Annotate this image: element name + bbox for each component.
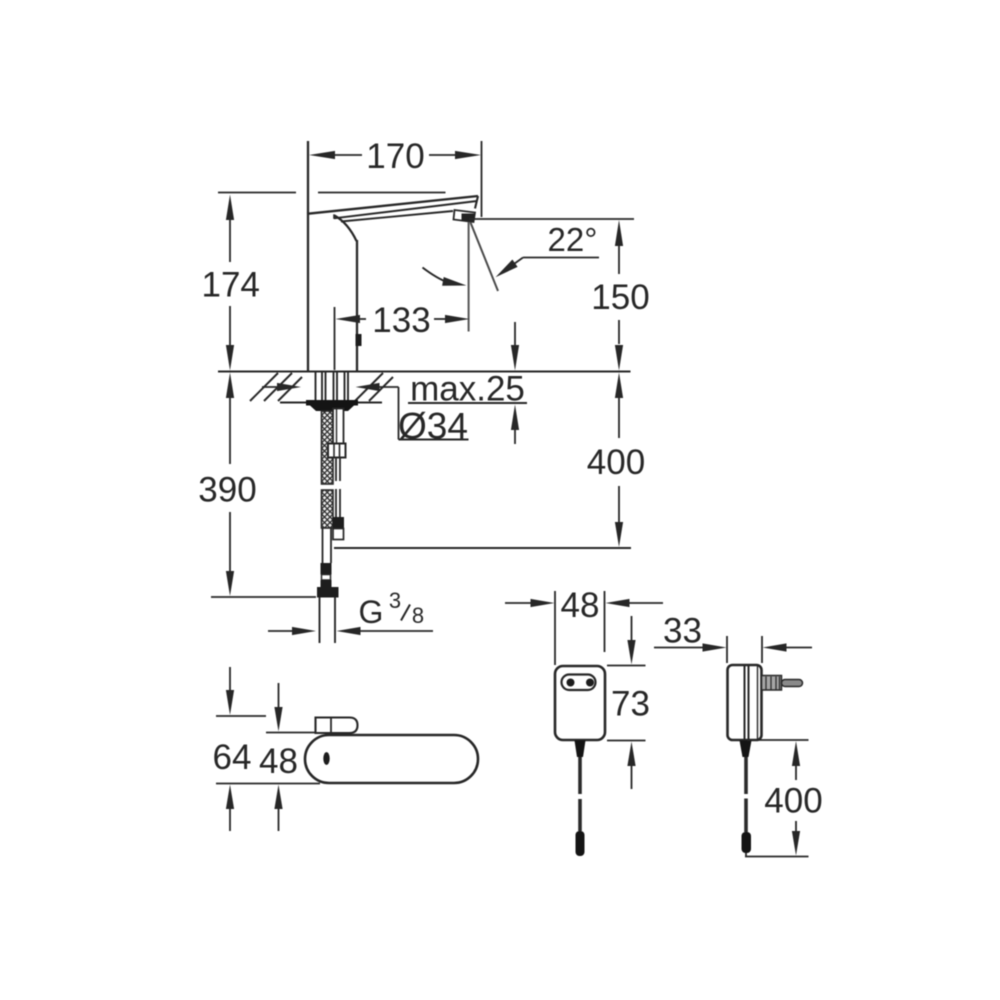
svg-text:48: 48: [561, 586, 600, 625]
svg-text:73: 73: [611, 685, 650, 724]
svg-text:Ø34: Ø34: [398, 406, 468, 447]
shank lines through counter: [316, 372, 349, 400]
plan view sensor slot: [323, 752, 329, 765]
water stream tilted 22 deg: [471, 223, 499, 292]
hose end fitting: [321, 563, 332, 575]
svg-text:48: 48: [259, 742, 298, 781]
dim 73: [607, 616, 646, 789]
svg-text:3: 3: [389, 588, 401, 613]
cable plug block: [333, 517, 345, 529]
svg-text:8: 8: [412, 603, 424, 628]
spout tip front face: [475, 196, 478, 209]
power supply body: [555, 666, 605, 740]
power supply cable stub: [575, 741, 586, 758]
socket pin holes: [567, 679, 575, 687]
spout outlet mousseur: [454, 210, 476, 222]
hose level reference line: [334, 547, 631, 549]
water stream vertical line: [468, 222, 470, 332]
mounting flange: [306, 400, 358, 406]
dim 170 horizontal: [333, 141, 482, 217]
sensor cable below nut: [335, 458, 337, 482]
counter bottom line: [280, 402, 382, 404]
G3/8 connection nut: [317, 587, 339, 598]
svg-text:150: 150: [591, 278, 649, 317]
plug pin base: [762, 676, 782, 691]
adapter seam lines: [744, 666, 746, 739]
dim 400 right: [745, 740, 809, 857]
spout chamfer line: [334, 201, 477, 218]
spout neck curve: [335, 216, 357, 242]
counter hatching left: [250, 373, 302, 401]
svg-text:22°: 22°: [548, 221, 598, 258]
svg-text:390: 390: [198, 471, 256, 510]
svg-text:133: 133: [372, 301, 430, 340]
dim 400 main: [618, 397, 620, 523]
dim 133: [335, 307, 447, 370]
dim G3/8 arrows: [268, 630, 292, 632]
spout underside line: [341, 211, 453, 222]
svg-text:G: G: [359, 594, 384, 630]
dim 33: [654, 636, 812, 663]
faucet back edge + 170 left extension: [307, 141, 309, 372]
plan view faucet body stadium: [305, 735, 478, 783]
svg-text:170: 170: [366, 137, 424, 176]
dim 48 plan: [266, 683, 316, 831]
svg-text:max.25: max.25: [410, 370, 525, 409]
adapter cable tip: [742, 832, 752, 853]
angle sweep arc arrow: [423, 268, 449, 283]
dim 174 vertical: [229, 218, 231, 346]
label 22 deg leader: [523, 257, 599, 259]
threaded rod upper: [333, 409, 344, 444]
adapter cable stub: [740, 741, 752, 758]
deck counter top line: [218, 371, 631, 373]
svg-text:400: 400: [764, 782, 822, 821]
svg-text:64: 64: [213, 738, 252, 777]
fraction slash G3/8: [401, 605, 410, 621]
plug pin: [782, 680, 803, 687]
svg-text:400: 400: [587, 443, 645, 482]
braided hose upper: [322, 411, 334, 528]
faucet top extension line: [218, 192, 296, 194]
max25 underline: [408, 402, 527, 404]
dia34 leader: [398, 387, 400, 440]
faucet front edge: [356, 240, 358, 372]
power supply cable tip: [576, 831, 585, 856]
dim dia34 arrows: [262, 386, 283, 388]
dim 48 mid: [505, 591, 663, 665]
dim 150: [469, 219, 634, 344]
adapter cable: [744, 757, 748, 794]
sensor window: [356, 334, 362, 346]
power supply cable: [578, 757, 582, 794]
plug adapter body: [728, 665, 762, 740]
svg-text:33: 33: [663, 612, 702, 651]
plan view spout tab: [316, 718, 358, 734]
counter hatching right: [355, 373, 393, 401]
power supply socket outline: [562, 675, 596, 691]
dim max25 arrows: [514, 322, 516, 348]
faucet spout top edge: [307, 196, 478, 214]
svg-text:174: 174: [201, 266, 259, 305]
adjusting nut: [328, 444, 346, 458]
dim 390 vertical: [211, 397, 316, 597]
connection tailpipe: [319, 598, 321, 644]
hose lower tube: [322, 528, 324, 563]
dim 64: [216, 667, 320, 831]
